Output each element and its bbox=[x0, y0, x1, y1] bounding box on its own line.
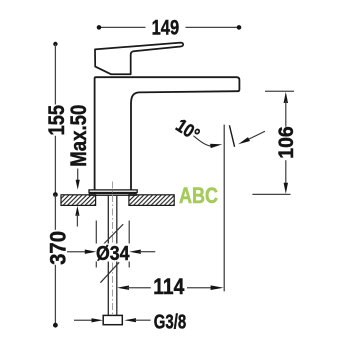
svg-text:Max.50: Max.50 bbox=[66, 105, 91, 167]
supply rod / threaded shank bbox=[107, 195, 109, 315]
dimension 114 (spout reach) bbox=[117, 274, 224, 299]
G3/8 connector box bbox=[103, 315, 122, 324]
svg-text:114: 114 bbox=[153, 274, 185, 299]
extension line for spout outlet / 10 degree detail bbox=[223, 125, 225, 292]
svg-text:370: 370 bbox=[46, 231, 71, 265]
hose break diagonal upper bbox=[102, 224, 123, 245]
hose break diagonal lower bbox=[100, 262, 119, 282]
hole extension line right bbox=[128, 221, 130, 268]
svg-text:ABC: ABC bbox=[179, 183, 218, 208]
svg-text:106: 106 bbox=[274, 126, 298, 159]
countertop hatched section right bbox=[129, 195, 174, 206]
dimension 106 (spout height) bbox=[252, 91, 298, 194]
svg-text:Ø34: Ø34 bbox=[96, 242, 130, 265]
faucet lever handle bbox=[95, 43, 183, 75]
label 10 degrees with curved leader arrow bbox=[172, 114, 222, 148]
dimension Ø34 (hole diameter) bbox=[67, 242, 155, 265]
svg-text:149: 149 bbox=[152, 16, 180, 40]
gasket under flange bbox=[89, 194, 136, 196]
G3/8 label with arrow bbox=[124, 310, 186, 333]
centerline (dash-dot) bbox=[112, 182, 114, 315]
dimension 149 (top width) bbox=[97, 16, 242, 40]
faucet body and spout bbox=[95, 77, 240, 190]
label Max.50 (counter thickness) with arrows bbox=[66, 105, 91, 227]
hole extension line left bbox=[95, 221, 97, 268]
countertop hatched section left bbox=[61, 195, 96, 206]
base flange bbox=[89, 190, 137, 193]
arrow pointing right at connector bbox=[74, 318, 103, 322]
svg-text:G3/8: G3/8 bbox=[154, 310, 187, 333]
white mask behind diameter text bbox=[94, 244, 132, 262]
dimension 370 (depth below counter) bbox=[46, 192, 71, 327]
10 degree tilted line bbox=[229, 125, 234, 147]
dimension 155 (height above counter) bbox=[44, 42, 69, 195]
arrow from right pointing at tilted line bbox=[238, 131, 265, 144]
